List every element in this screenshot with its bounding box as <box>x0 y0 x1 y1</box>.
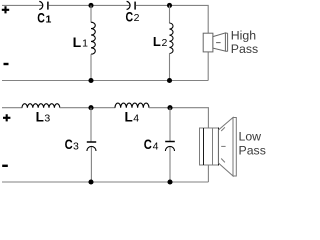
capacitor C3 <box>87 142 96 151</box>
label C3 <box>65 137 79 152</box>
node: rail / C4 <box>167 179 172 184</box>
capacitor C2 <box>127 1 136 9</box>
svg-text:L: L <box>36 109 44 124</box>
speaker tweeter (high pass driver) <box>203 33 227 52</box>
wire top-left to C1 <box>2 4 43 6</box>
svg-text:C: C <box>144 137 152 152</box>
label L4 <box>125 110 140 125</box>
tweeter minus mark <box>216 42 221 44</box>
woofer cone <box>218 118 236 177</box>
wire L2 to bottom rail <box>169 54 171 81</box>
capacitor C1 <box>39 1 48 9</box>
svg-text:C: C <box>126 9 134 25</box>
label L3 <box>36 109 51 124</box>
inductor L3 <box>22 104 60 108</box>
woofer cone marks <box>221 127 225 162</box>
label L2 <box>153 34 168 49</box>
wire L3 to L4 <box>60 107 115 109</box>
wire tweeter to rail <box>207 52 209 81</box>
svg-text:L: L <box>153 34 161 49</box>
svg-text:Pass: Pass <box>239 143 266 157</box>
svg-text:1: 1 <box>82 37 88 49</box>
minus terminal (top circuit) <box>4 63 9 65</box>
svg-text:1: 1 <box>46 13 52 25</box>
bottom rail (top circuit) <box>2 80 208 82</box>
svg-text:C: C <box>65 137 73 152</box>
wire woofer to rail <box>207 165 209 182</box>
svg-text:2: 2 <box>134 12 140 24</box>
node: rail / L1 <box>88 78 93 83</box>
svg-text:4: 4 <box>153 140 159 152</box>
label Low Pass <box>239 130 266 158</box>
capacitor C4 <box>165 142 175 152</box>
svg-text:3: 3 <box>73 140 79 152</box>
label L1 <box>73 34 89 50</box>
node: top wire / C4 junction <box>167 105 172 110</box>
node: rail / C3 <box>88 179 93 184</box>
wire node to L1 coil <box>90 5 92 22</box>
wire C4 to bottom rail <box>169 147 171 182</box>
speaker woofer (low pass driver) magnet <box>199 128 219 166</box>
plus terminal (top circuit) <box>2 6 9 13</box>
wire node to C4 <box>169 108 171 141</box>
wire C1 to C2 <box>49 4 131 6</box>
wire L1 to bottom rail <box>90 54 92 80</box>
svg-text:High: High <box>231 28 256 42</box>
label C2 <box>126 9 140 25</box>
svg-text:L: L <box>73 34 82 50</box>
label C4 <box>144 137 159 152</box>
inductor L1 <box>91 22 95 54</box>
node: top wire / L2 junction <box>167 3 172 8</box>
node: top wire / L1 junction <box>88 3 93 8</box>
svg-text:C: C <box>37 10 45 26</box>
svg-text:4: 4 <box>133 113 139 125</box>
inductor L4 <box>115 103 149 108</box>
wire C3 to bottom rail <box>90 147 92 182</box>
wire node to C3 <box>90 108 92 142</box>
svg-text:Pass: Pass <box>231 42 258 56</box>
minus terminal (bottom circuit) <box>2 165 8 167</box>
svg-text:3: 3 <box>44 112 50 124</box>
plus terminal (bottom circuit) <box>3 114 10 121</box>
inductor L2 <box>170 23 174 54</box>
node: top wire / C3 junction <box>88 105 93 110</box>
bottom rail (bottom circuit) <box>2 181 208 183</box>
wire C2 to top-right corner, down to tweeter <box>136 5 208 33</box>
node: rail / L2 <box>167 78 172 83</box>
wire top-left to L3 <box>2 107 22 109</box>
label High Pass <box>231 28 258 56</box>
svg-text:2: 2 <box>162 37 168 49</box>
svg-text:Low: Low <box>239 130 262 144</box>
wire L4 to top-right corner, down to woofer <box>149 108 208 128</box>
wire node to L2 coil <box>169 5 171 23</box>
label C1 <box>37 10 51 26</box>
svg-text:L: L <box>125 110 133 125</box>
